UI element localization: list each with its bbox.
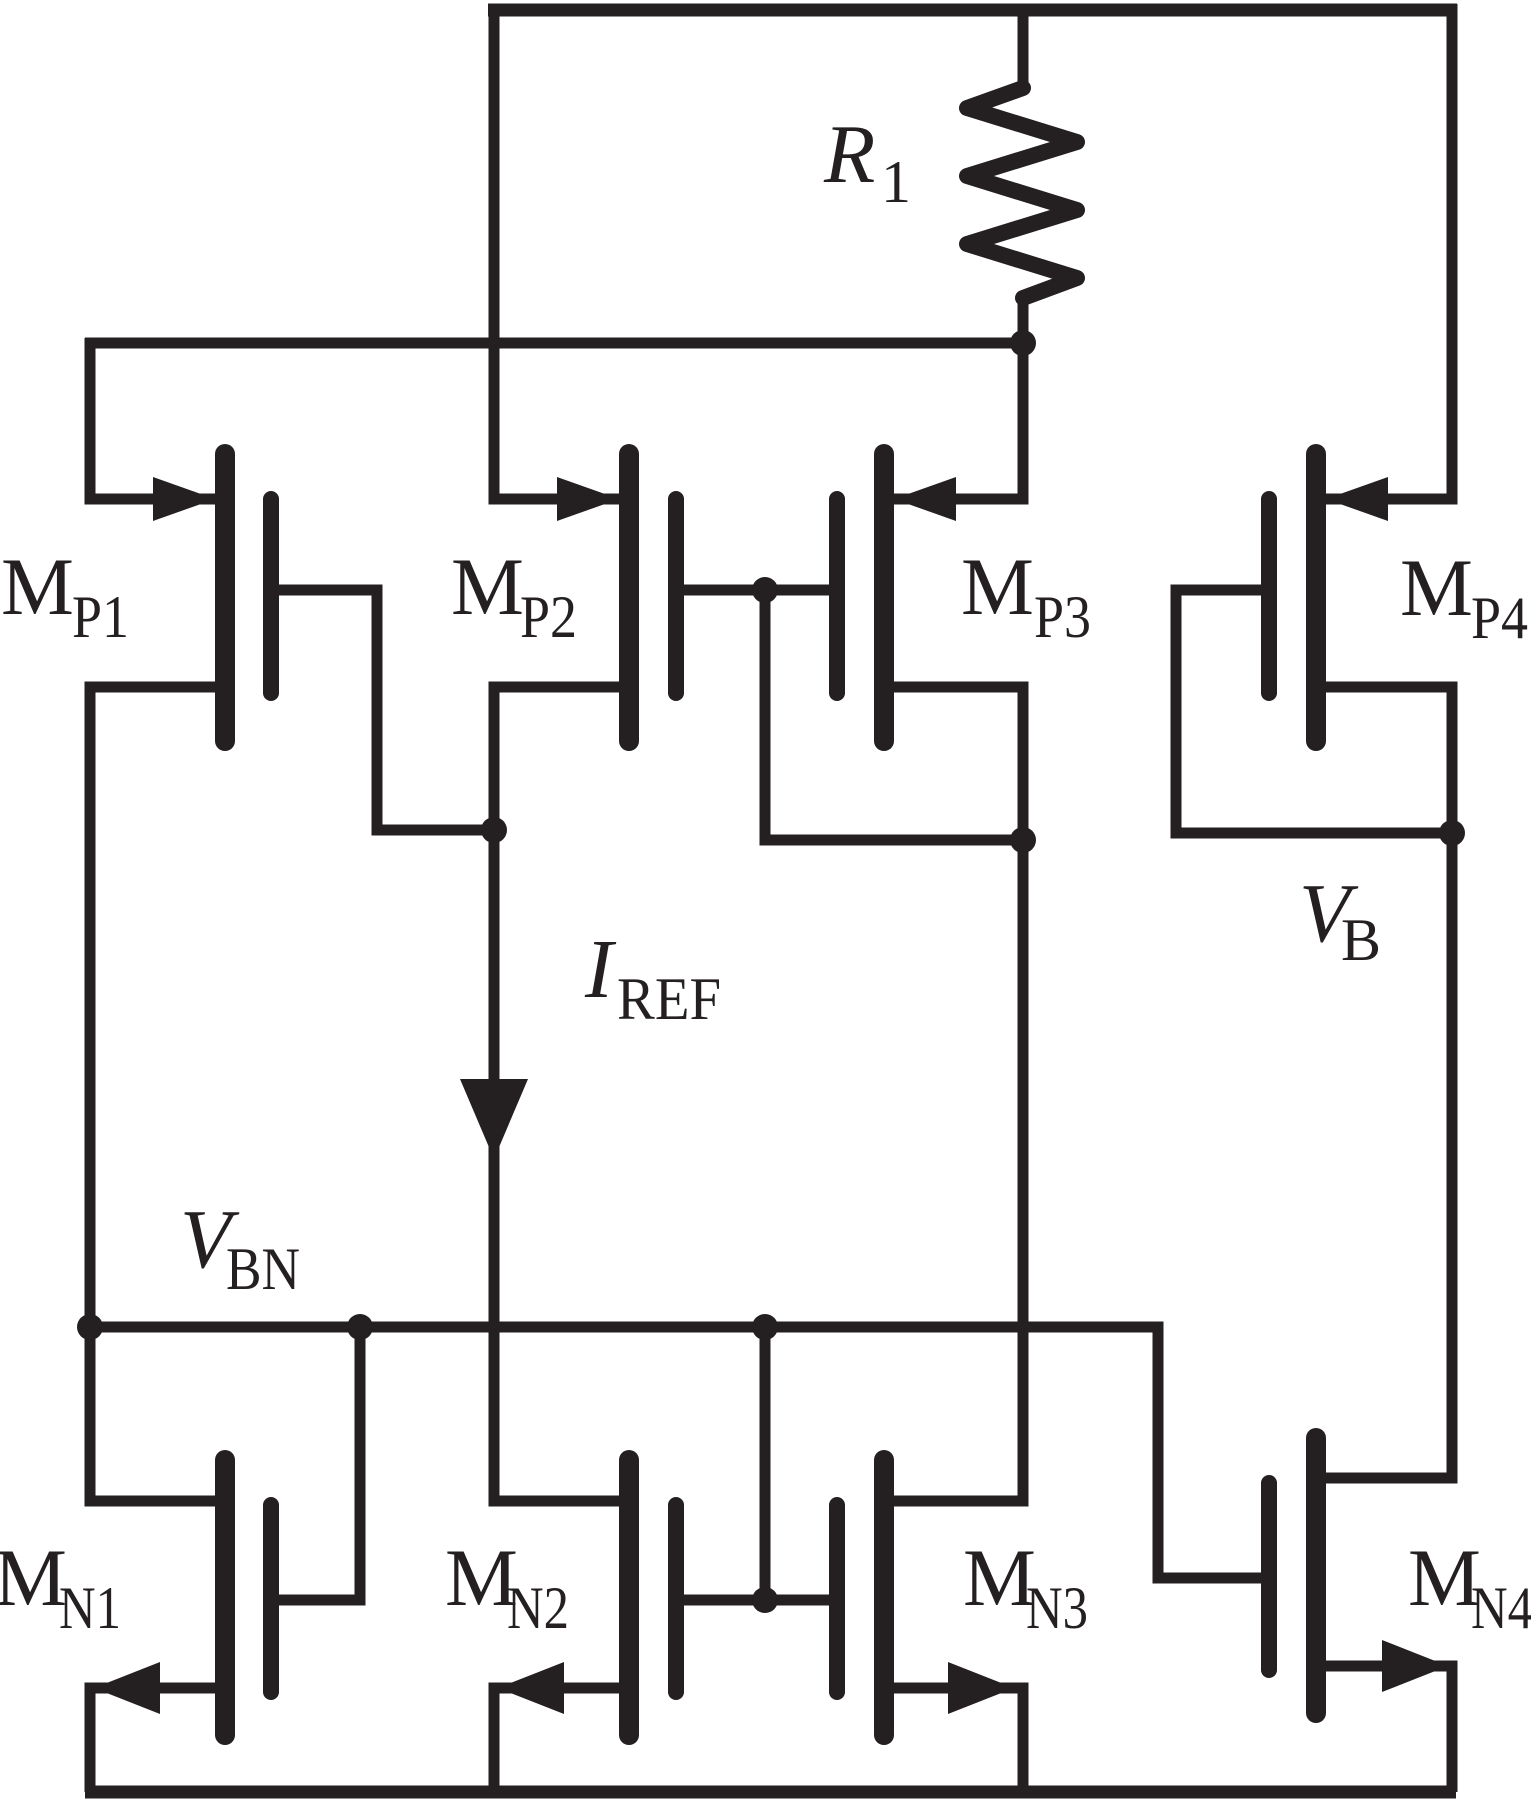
transistor MN3	[837, 1460, 884, 1735]
svg-text:N1: N1	[59, 1575, 121, 1641]
arrow MN3 source	[948, 1662, 1014, 1714]
transistor MP1	[225, 454, 271, 741]
svg-text:REF: REF	[617, 966, 721, 1032]
wire MN4 source leg	[1326, 1666, 1452, 1792]
svg-text:BN: BN	[226, 1236, 300, 1302]
svg-text:P2: P2	[520, 584, 577, 650]
wire MP1 drain to VBN to MN1 drain	[90, 687, 215, 1501]
svg-text:P1: P1	[72, 584, 129, 650]
node VBN center	[752, 1314, 778, 1340]
wire MP4 drain / VB line / MN4 drain	[1326, 687, 1452, 1478]
wire MP2 supply riser and source	[494, 4, 619, 499]
wire MN2-MN3 gate bridge	[684, 1595, 829, 1606]
wire top supply rail	[488, 4, 1457, 17]
wire MN3 source leg	[894, 1688, 1023, 1792]
arrow MN1 source	[94, 1662, 160, 1714]
node MN1 gate	[347, 1314, 373, 1340]
wire MN1 gate link	[279, 1332, 360, 1600]
arrow MP4 source	[1326, 477, 1388, 521]
svg-text:I: I	[584, 923, 617, 1016]
transistor MN2	[629, 1460, 676, 1735]
node MP2-MP3 gates	[752, 577, 778, 603]
transistor MN4	[1269, 1438, 1316, 1713]
arrow IREF current	[460, 1079, 528, 1159]
svg-text:M: M	[963, 1532, 1036, 1623]
svg-text:N4: N4	[1471, 1575, 1531, 1641]
wire MP3 drain down to MN3 drain	[894, 687, 1023, 1501]
wire MP2-MP3 gate bridge	[684, 585, 829, 596]
node MN2-MN3 gates	[752, 1587, 778, 1613]
wire MN2 source leg	[494, 1688, 619, 1792]
transistor MN1	[225, 1460, 271, 1735]
svg-text:R: R	[823, 108, 875, 201]
svg-text:M: M	[1408, 1532, 1481, 1623]
wire VBN rail to MN4 gate	[85, 1327, 1261, 1578]
wire right supply riser / MP4 source	[1326, 4, 1452, 499]
resistor R1	[967, 88, 1077, 298]
node VB	[1439, 820, 1465, 846]
transistor MP4	[1269, 454, 1316, 741]
arrow MP2 source	[557, 477, 619, 521]
arrow MN4 source	[1382, 1640, 1448, 1692]
svg-text:B: B	[1341, 907, 1381, 973]
svg-text:N3: N3	[1026, 1575, 1088, 1641]
arrow MP3 source	[894, 477, 956, 521]
wire MP1 gate link	[279, 590, 489, 830]
wire MN1 source leg	[90, 1688, 215, 1792]
svg-text:1: 1	[881, 149, 911, 215]
node MP1 gate / IREF	[481, 817, 507, 843]
wire MP3 source riser	[894, 343, 1023, 499]
wire MP4 gate link	[1176, 590, 1447, 833]
wire MP1 source riser	[90, 338, 215, 499]
node R1 bottom	[1010, 330, 1036, 356]
wire R1 top stub	[1018, 4, 1029, 92]
wire bottom rail	[85, 1786, 1456, 1799]
svg-text:M: M	[1400, 542, 1473, 633]
svg-text:N2: N2	[507, 1575, 569, 1641]
svg-text:P3: P3	[1034, 584, 1091, 650]
wire MP2 drain / IREF / MN2 drain	[494, 687, 619, 1501]
svg-text:M: M	[1, 541, 74, 632]
svg-text:P4: P4	[1471, 585, 1528, 651]
wire gate tie to MP3 drain	[765, 590, 1018, 840]
arrow MN2 source	[498, 1662, 564, 1714]
svg-text:M: M	[961, 541, 1034, 632]
svg-text:M: M	[451, 541, 524, 632]
wire MN2-MN3 gate riser	[760, 1332, 771, 1600]
svg-text:M: M	[0, 1532, 67, 1623]
node VBN left	[77, 1314, 103, 1340]
transistor MP3	[837, 454, 884, 741]
wire R1 node rail y343	[85, 338, 1023, 349]
transistor MP2	[629, 454, 676, 741]
wire R1 bottom stub	[1018, 296, 1029, 343]
node MP3 gate-drain	[1010, 827, 1036, 853]
arrow MP1 source	[153, 477, 215, 521]
